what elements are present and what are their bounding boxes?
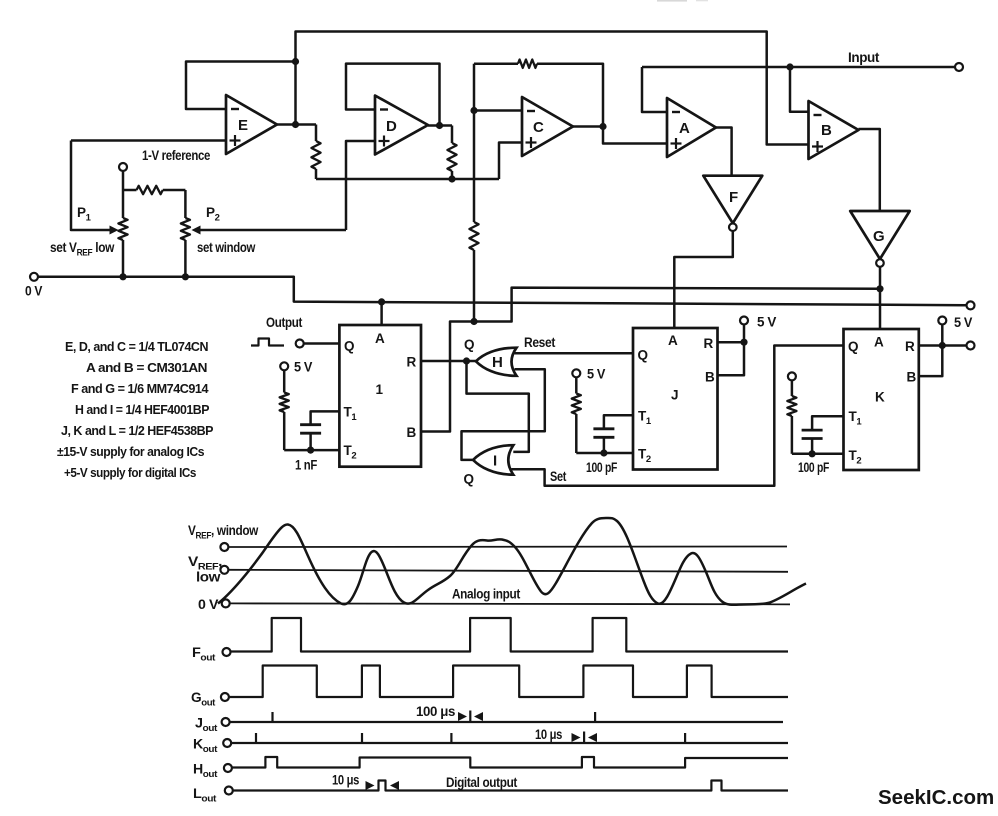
terminal L out <box>225 787 233 795</box>
label Vref window <box>188 523 259 542</box>
node C inverting input junction <box>470 107 477 114</box>
wire J cap bottom <box>603 437 606 453</box>
pin label A of block 1 <box>375 331 385 346</box>
label set Vref low <box>50 240 115 259</box>
tick J out 3 <box>594 712 596 722</box>
svg-text:K: K <box>875 390 885 405</box>
wire A non-inverting input from C output <box>603 127 667 144</box>
terminal 5V K reset <box>938 317 946 325</box>
monostable J <box>633 328 718 470</box>
wire 5V to resistor <box>283 370 286 392</box>
svg-text:Q: Q <box>464 472 474 487</box>
waveform F out <box>231 618 789 652</box>
svg-text:100 pF: 100 pF <box>586 460 617 475</box>
wire C- node vertical to resistor <box>473 111 476 223</box>
arrow 100 us left <box>458 712 467 721</box>
pin label B of K <box>907 370 917 385</box>
resistor block 1 timing <box>280 393 289 413</box>
label 5 V K reset <box>954 315 972 330</box>
resistor K timing <box>787 396 796 416</box>
pin label Q of block 1 <box>344 339 354 354</box>
logo SeekIC.com <box>878 786 994 809</box>
svg-text:set window: set window <box>197 240 256 255</box>
label 10 us L <box>332 773 359 788</box>
pin label Q of K <box>848 339 858 354</box>
capacitor 100 pF of K <box>802 430 823 438</box>
wire J R to B <box>718 342 745 375</box>
nor-gate H <box>476 348 517 376</box>
node E output junction <box>292 121 299 128</box>
node Input junction <box>786 63 793 70</box>
inverter F <box>703 176 762 231</box>
svg-text:A: A <box>874 335 884 350</box>
arrow 10 us L right <box>390 781 399 790</box>
node P1 bottom junction <box>119 273 126 280</box>
svg-text:±15-V supply for analog ICs: ±15-V supply for analog ICs <box>57 444 204 459</box>
wire D non-inverting input from P2 wiper <box>346 141 375 230</box>
svg-text:T1​: T1​ <box>638 409 652 428</box>
svg-text:H and I = 1/4 HEF4001BP: H and I = 1/4 HEF4001BP <box>75 402 210 417</box>
wire E non-inverting input <box>71 139 226 142</box>
wire block 1 Q output <box>304 342 340 345</box>
pin label T2 of J <box>638 447 651 466</box>
svg-text:Input: Input <box>848 50 880 65</box>
svg-text:I: I <box>493 453 497 470</box>
svg-text:T2​: T2​ <box>344 443 357 462</box>
terminal F out <box>223 648 231 656</box>
terminal G out <box>221 693 229 701</box>
note IC list line 2 <box>86 360 207 375</box>
wire C output <box>573 125 603 128</box>
pin label B of block 1 <box>407 425 417 440</box>
terminal K out <box>223 739 231 747</box>
svg-text:SeekIC.com: SeekIC.com <box>878 786 994 809</box>
svg-text:Gout​: Gout​ <box>191 690 216 709</box>
waveform J out baseline <box>230 721 783 723</box>
node summing bus junction at D resistor <box>448 175 455 182</box>
node retrigger junction <box>470 318 477 325</box>
svg-text:1-V reference: 1-V reference <box>142 148 211 163</box>
label Vref low line2 <box>196 570 221 585</box>
wire H lower input from I output <box>462 369 545 460</box>
label L out <box>193 786 217 805</box>
waveform analog input curve <box>218 518 806 605</box>
pin label T2 of block 1 <box>344 443 357 462</box>
wire Reset from J Q to H input <box>515 352 634 355</box>
capacitor 100 pF of J <box>593 429 614 438</box>
wire P2 vertical upper <box>184 190 187 218</box>
wire C feedback right segment <box>537 64 603 127</box>
svg-text:100 μs: 100 μs <box>416 704 455 719</box>
pin label T1 of block 1 <box>344 405 358 424</box>
wire resistor to T2 rail <box>283 412 286 450</box>
label 1 nF <box>295 458 317 473</box>
nor-gate I <box>473 445 513 475</box>
pin label T2 of K <box>849 448 862 467</box>
waveform L out <box>233 781 788 791</box>
wire P1-P2 top link right <box>163 189 186 192</box>
svg-text:R: R <box>704 336 714 351</box>
terminal Vref window line <box>220 543 228 551</box>
pin label Q of J <box>638 348 648 363</box>
wire H output to I upper input <box>467 361 529 452</box>
op-amp C <box>522 97 573 156</box>
wire D output to resistor <box>451 126 454 144</box>
svg-text:P2​: P2​ <box>206 205 220 224</box>
svg-text:10 μs: 10 μs <box>535 727 562 742</box>
label Input <box>848 50 880 65</box>
svg-text:F and G = 1/6 MM74C914: F and G = 1/6 MM74C914 <box>71 381 209 396</box>
svg-text:10 μs: 10 μs <box>332 773 359 788</box>
pin label A of K <box>874 335 884 350</box>
resistor C feedback <box>518 60 537 68</box>
wire C non-inverting input <box>499 143 522 180</box>
op-amp B <box>809 101 859 159</box>
op-amp D <box>375 96 428 155</box>
monostable K <box>844 329 919 470</box>
wire P1-P2 top link left <box>123 189 137 192</box>
capacitor 1 nF <box>300 425 321 434</box>
waveform G out <box>229 666 788 698</box>
wire K cap top to T1 <box>812 416 843 430</box>
svg-text:A: A <box>375 331 385 346</box>
wire P1 wiper from E+ input <box>71 141 110 231</box>
resistor below D output <box>447 143 456 171</box>
wire D resistor to bus <box>451 171 454 179</box>
node J R junction <box>740 339 747 346</box>
wire resistor to bus <box>315 169 318 179</box>
wire block 1 R output to H <box>421 360 476 363</box>
wire K T2 rail <box>792 453 844 456</box>
svg-text:0 V: 0 V <box>25 284 42 299</box>
arrow 100 us right <box>474 712 483 721</box>
node K capacitor junction <box>809 450 816 457</box>
op-amp E <box>226 95 277 154</box>
wire J R-B tie <box>718 341 745 344</box>
svg-text:Q: Q <box>638 348 648 363</box>
wire B inverting input <box>790 67 809 112</box>
label 100 pF of J <box>586 460 617 475</box>
svg-text:T2​: T2​ <box>849 448 862 467</box>
wire cap bottom <box>309 433 312 450</box>
wire K 5V to resistor <box>791 380 794 396</box>
wire K cap bottom <box>811 439 814 454</box>
note supply line 6 <box>57 444 204 459</box>
tick K out 4 <box>583 732 585 744</box>
svg-text:5 V: 5 V <box>954 315 972 330</box>
terminal J out <box>222 718 230 726</box>
terminal Input <box>955 63 963 71</box>
terminal 0V rail right end <box>967 301 975 309</box>
svg-text:5 V: 5 V <box>294 360 312 375</box>
resistor J timing <box>572 394 581 415</box>
wire K R to 5V <box>941 325 944 346</box>
wire retrigger to block 1 B output <box>421 322 474 432</box>
label J out <box>195 716 218 735</box>
waveform K out baseline <box>231 742 788 744</box>
pin label R of J <box>704 336 714 351</box>
wire G output to K A-input <box>879 289 882 329</box>
icon output pulse <box>251 339 284 346</box>
wire C feedback left segment <box>474 62 518 65</box>
tick J out 1 <box>271 712 273 722</box>
label Q-bar near I <box>464 472 474 487</box>
svg-text:A: A <box>668 333 678 348</box>
svg-text:Set: Set <box>550 469 567 484</box>
pin label A of J <box>668 333 678 348</box>
note IC list line 1 <box>65 339 208 354</box>
label F out <box>192 645 216 664</box>
svg-text:Q: Q <box>464 337 474 352</box>
label 5 V J timing <box>587 367 605 382</box>
node J capacitor junction <box>600 449 607 456</box>
label Analog input <box>452 587 521 602</box>
wire block 1 A-input <box>380 302 383 325</box>
wire G output bus to retrigger node <box>474 288 880 322</box>
terminal 5V J reset <box>740 317 748 325</box>
wire I lower input from Set line <box>512 346 844 486</box>
terminal K timing supply <box>788 372 796 380</box>
svg-text:E: E <box>238 117 248 134</box>
note IC list line 4 <box>75 402 210 417</box>
svg-text:T1​: T1​ <box>849 409 863 428</box>
wire B output to G input <box>859 129 880 211</box>
wire D output <box>428 124 452 127</box>
svg-text:5 V: 5 V <box>587 367 605 382</box>
svg-text:T2​: T2​ <box>638 447 651 466</box>
svg-text:Q: Q <box>848 339 858 354</box>
svg-text:R: R <box>905 339 915 354</box>
op-amp A <box>667 98 716 157</box>
svg-text:F: F <box>729 189 738 206</box>
wire T2 rail <box>284 449 339 452</box>
wire J cap top to T1 <box>604 415 633 429</box>
arrow 10 us L left <box>366 781 375 790</box>
svg-text:Q: Q <box>344 339 354 354</box>
wire C inverting input <box>474 109 522 112</box>
svg-text:Reset: Reset <box>524 335 556 350</box>
label 5 V block 1 <box>294 360 312 375</box>
wire P1 vertical lower <box>122 240 125 277</box>
node D output junction <box>436 122 443 129</box>
wire D feedback loop <box>346 64 440 126</box>
wire K R to B <box>919 346 943 377</box>
node E feedback junction <box>292 58 299 65</box>
arrow P2 wiper <box>192 226 201 235</box>
label 10 us K <box>535 727 562 742</box>
svg-text:Lout​: Lout​ <box>193 786 217 805</box>
wire E feedback loop <box>186 62 296 110</box>
svg-text:+5-V supply for digital ICs: +5-V supply for digital ICs <box>64 465 196 480</box>
wire resistor to lower junction <box>473 250 476 322</box>
arrow 10 us K left <box>572 733 581 742</box>
wire F output to J A-input <box>674 231 733 328</box>
terminal 5V block 1 timing <box>280 362 288 370</box>
wire C- node vertical upper <box>473 64 476 111</box>
svg-text:Kout​: Kout​ <box>193 737 218 756</box>
svg-text:VREF​, window: VREF​, window <box>188 523 259 542</box>
wire Vref low level line <box>228 570 788 572</box>
terminal 5V J timing <box>572 369 580 377</box>
tick K out 5 <box>684 733 686 743</box>
svg-text:Hout​: Hout​ <box>193 762 218 781</box>
wire J 5V to resistor <box>575 377 578 393</box>
label P1 <box>77 205 92 224</box>
svg-text:low: low <box>196 570 221 585</box>
label 1 of block 1 <box>376 382 384 397</box>
svg-text:Fout​: Fout​ <box>192 645 216 664</box>
label Vref low line1 <box>188 554 222 573</box>
resistor below E output <box>311 141 320 169</box>
wire 0V level line <box>230 602 790 605</box>
wire J T2 rail <box>576 452 633 455</box>
svg-text:5 V: 5 V <box>757 315 776 330</box>
terminal 0 V <box>30 273 38 281</box>
wire E output <box>277 123 316 126</box>
label 0 V timing <box>198 597 218 612</box>
potentiometer P2 <box>181 218 190 240</box>
label Reset <box>524 335 556 350</box>
svg-text:set VREF​ low: set VREF​ low <box>50 240 115 259</box>
pin label T1 of K <box>849 409 863 428</box>
resistor between P1 and P2 <box>137 186 163 194</box>
pin label T1 of J <box>638 409 652 428</box>
wire E output to resistor <box>315 125 318 142</box>
wire P1 vertical upper <box>122 171 125 218</box>
svg-text:D: D <box>386 118 397 135</box>
terminal Vref low line <box>220 566 228 574</box>
terminal K R output <box>967 342 975 350</box>
wire G output <box>879 267 882 289</box>
tick J out 2 <box>469 711 471 723</box>
label set window <box>197 240 256 255</box>
tick K out 3 <box>450 733 452 743</box>
svg-text:P1​: P1​ <box>77 205 92 224</box>
node K R junction <box>939 342 946 349</box>
label 5 V J reset <box>757 315 776 330</box>
pin label B of J <box>705 370 715 385</box>
svg-text:B: B <box>821 122 832 139</box>
node H output junction <box>463 357 470 364</box>
svg-text:J, K and L = 1/2 HEF4538BP: J, K and L = 1/2 HEF4538BP <box>61 423 214 438</box>
label 100 pF of K <box>798 460 829 475</box>
inverter G <box>850 211 910 267</box>
label 1-V reference <box>142 148 211 163</box>
remnant cropped title <box>657 0 708 2</box>
label 100 us <box>416 704 455 719</box>
svg-text:100 pF: 100 pF <box>798 460 829 475</box>
svg-text:Digital output: Digital output <box>446 775 518 790</box>
svg-text:1 nF: 1 nF <box>295 458 317 473</box>
note supply line 7 <box>64 465 196 480</box>
svg-text:J: J <box>671 388 678 403</box>
wire Vref window level line <box>228 546 787 549</box>
waveform H out <box>232 757 788 768</box>
label K of block K <box>875 390 885 405</box>
svg-text:H: H <box>492 354 502 371</box>
pin label R of block 1 <box>407 355 417 370</box>
terminal H out <box>224 764 232 772</box>
tick K out 2 <box>361 733 363 743</box>
label J of block J <box>671 388 678 403</box>
wire J R to 5V <box>743 325 746 343</box>
terminal block 1 Q output <box>296 340 304 348</box>
svg-text:1: 1 <box>376 382 384 397</box>
wire P2 vertical lower <box>184 240 187 277</box>
wire Input line <box>642 66 955 69</box>
note IC list line 3 <box>71 381 209 396</box>
svg-text:E, D, and C = 1/4 TL074CN: E, D, and C = 1/4 TL074CN <box>65 339 208 354</box>
label Output <box>266 315 303 330</box>
wire A output to F input <box>716 128 732 176</box>
label Q near H <box>464 337 474 352</box>
svg-text:B: B <box>705 370 715 385</box>
potentiometer P1 <box>118 218 127 240</box>
label P2 <box>206 205 220 224</box>
label 0 V <box>25 284 42 299</box>
svg-text:T1​: T1​ <box>344 405 358 424</box>
svg-text:B: B <box>407 425 417 440</box>
svg-text:A and B = CM301AN: A and B = CM301AN <box>86 360 207 375</box>
svg-text:B: B <box>907 370 917 385</box>
node C output junction <box>599 123 606 130</box>
svg-text:Analog input: Analog input <box>452 587 521 602</box>
monostable 1 <box>339 325 421 467</box>
wire summing bus <box>316 178 499 181</box>
node block 1 A-input junction <box>378 298 385 305</box>
wire K R to terminal <box>919 344 967 347</box>
svg-text:R: R <box>407 355 417 370</box>
svg-text:C: C <box>533 119 544 136</box>
wire A inverting input <box>642 67 667 112</box>
wire 0V rail <box>38 277 967 305</box>
label Set <box>550 469 567 484</box>
svg-text:Output: Output <box>266 315 303 330</box>
wire J resistor to T2 rail <box>575 414 578 453</box>
node capacitor junction block 1 <box>307 447 314 454</box>
label H out <box>193 762 218 781</box>
arrow P1 wiper <box>110 226 119 235</box>
node P2 bottom junction <box>182 273 189 280</box>
resistor on C- node vertical <box>469 222 478 250</box>
note IC list line 5 <box>61 423 214 438</box>
tick K out 1 <box>255 733 257 743</box>
label G out <box>191 690 216 709</box>
node G output junction <box>876 285 883 292</box>
svg-text:A: A <box>679 120 690 137</box>
label K out <box>193 737 218 756</box>
svg-text:0 V: 0 V <box>198 597 218 612</box>
svg-text:G: G <box>873 228 884 245</box>
wire K resistor to T2 rail <box>791 416 794 454</box>
terminal 0V timing line <box>222 599 230 607</box>
pin label R of K <box>905 339 915 354</box>
label Digital output <box>446 775 518 790</box>
svg-text:Jout​: Jout​ <box>195 716 218 735</box>
wire P2 wiper to D+ input <box>199 229 346 232</box>
wire top bus from E output to B+ input <box>296 32 809 145</box>
wire cap top to T1 <box>311 411 340 424</box>
terminal P1 top (1-V reference) <box>119 163 127 171</box>
arrow 10 us K right <box>588 733 597 742</box>
